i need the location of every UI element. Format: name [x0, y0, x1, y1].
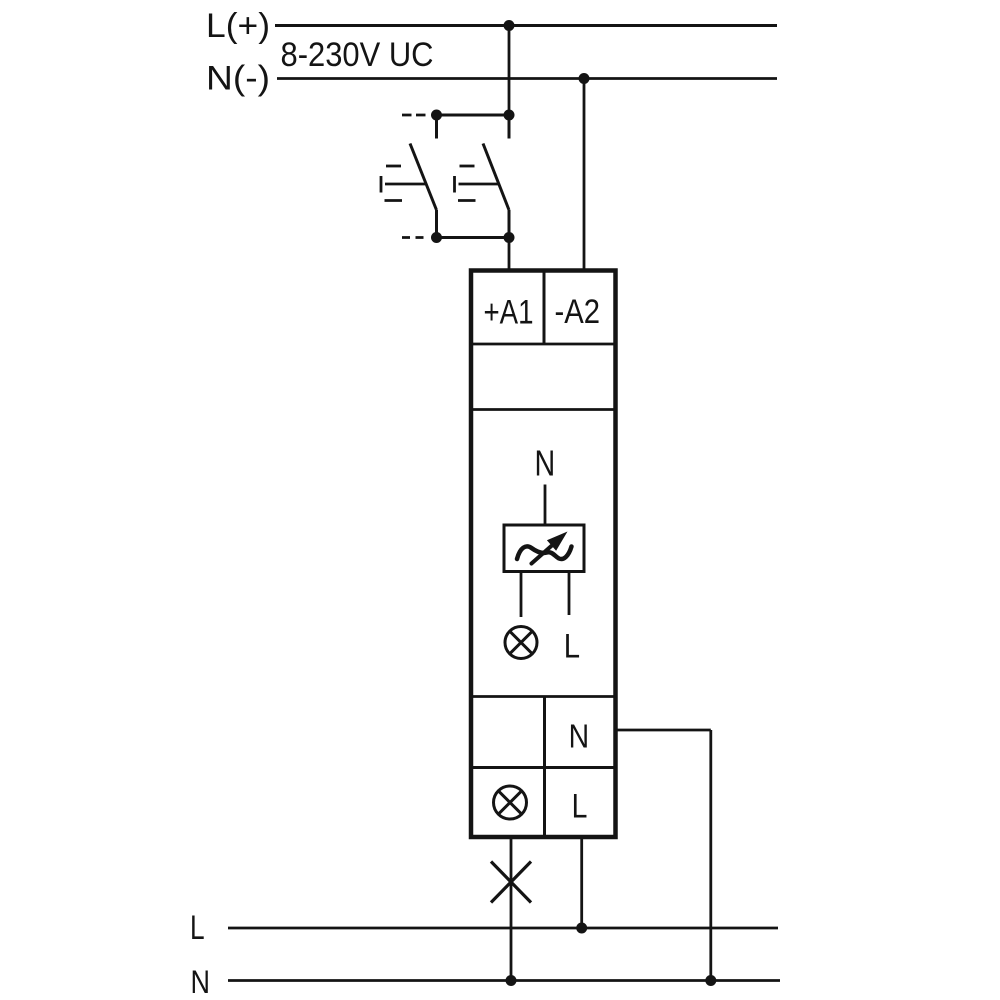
wire internal N to dimmer [544, 485, 547, 526]
wire top bus [437, 114, 510, 117]
wire internal L output [568, 572, 571, 616]
separator upper body [471, 408, 616, 411]
svg-text:L: L [572, 788, 588, 826]
pushbutton S1 contact [410, 117, 437, 238]
node bottom bus left [431, 232, 442, 243]
svg-text:+A1: +A1 [484, 294, 534, 332]
wire N(-) supply rail [277, 77, 777, 80]
node right drop on N rail [705, 975, 716, 986]
svg-text:8-230V UC: 8-230V UC [281, 36, 434, 74]
terminal divider +A1/-A2 [543, 271, 546, 344]
separator under terminals [471, 343, 616, 346]
wire internal lamp output [520, 572, 523, 618]
lamp symbol output terminal [494, 786, 527, 819]
pushbutton S1 actuator [381, 166, 426, 201]
svg-text:-A2: -A2 [555, 293, 601, 331]
svg-text:L: L [190, 909, 205, 947]
svg-text:N: N [191, 964, 211, 1000]
node junction on N rail [579, 73, 590, 84]
dimmer wave symbol [517, 546, 572, 559]
wire N terminal to right drop [616, 729, 711, 732]
separator above output terminals [471, 695, 616, 698]
output terminal row separator [471, 766, 616, 769]
svg-text:N: N [535, 443, 556, 484]
svg-text:N: N [569, 718, 590, 755]
wire from N rail down to terminal -A2 [583, 79, 586, 273]
svg-text:L(+): L(+) [206, 7, 270, 45]
node top bus left [431, 110, 442, 121]
wire N load rail [228, 979, 780, 982]
device U1 outline [471, 271, 616, 838]
node lamp wire on N rail [506, 975, 517, 986]
wire L(+) supply rail [275, 24, 777, 27]
wire lamp terminal down to N rail [510, 837, 513, 981]
dimmer arrow symbol [532, 545, 554, 564]
pushbutton S2 actuator [455, 166, 500, 201]
wire bottom bus [437, 236, 510, 239]
node top bus right [504, 110, 515, 121]
wire from pushbutton bus down to terminal +A1 [508, 238, 511, 273]
node junction on L rail [504, 20, 515, 31]
dimmer block [504, 525, 584, 572]
svg-text:N(-): N(-) [206, 60, 270, 98]
pushbutton S2 contact [483, 117, 509, 238]
wire right drop to N rail [709, 730, 712, 981]
node L terminal on L rail [576, 923, 587, 934]
wire dashed continuation top left [402, 114, 429, 117]
wire dashed continuation bottom left [402, 236, 429, 239]
node bottom bus right [504, 232, 515, 243]
wire L load rail [228, 927, 778, 930]
svg-text:L: L [564, 628, 580, 666]
crossed-out mark on lamp wire [491, 862, 531, 903]
output terminal divider [543, 697, 546, 837]
lamp symbol internal [505, 627, 537, 659]
wire L terminal down to L rail [580, 837, 583, 928]
wire from L rail down to pushbutton bus [508, 26, 511, 116]
